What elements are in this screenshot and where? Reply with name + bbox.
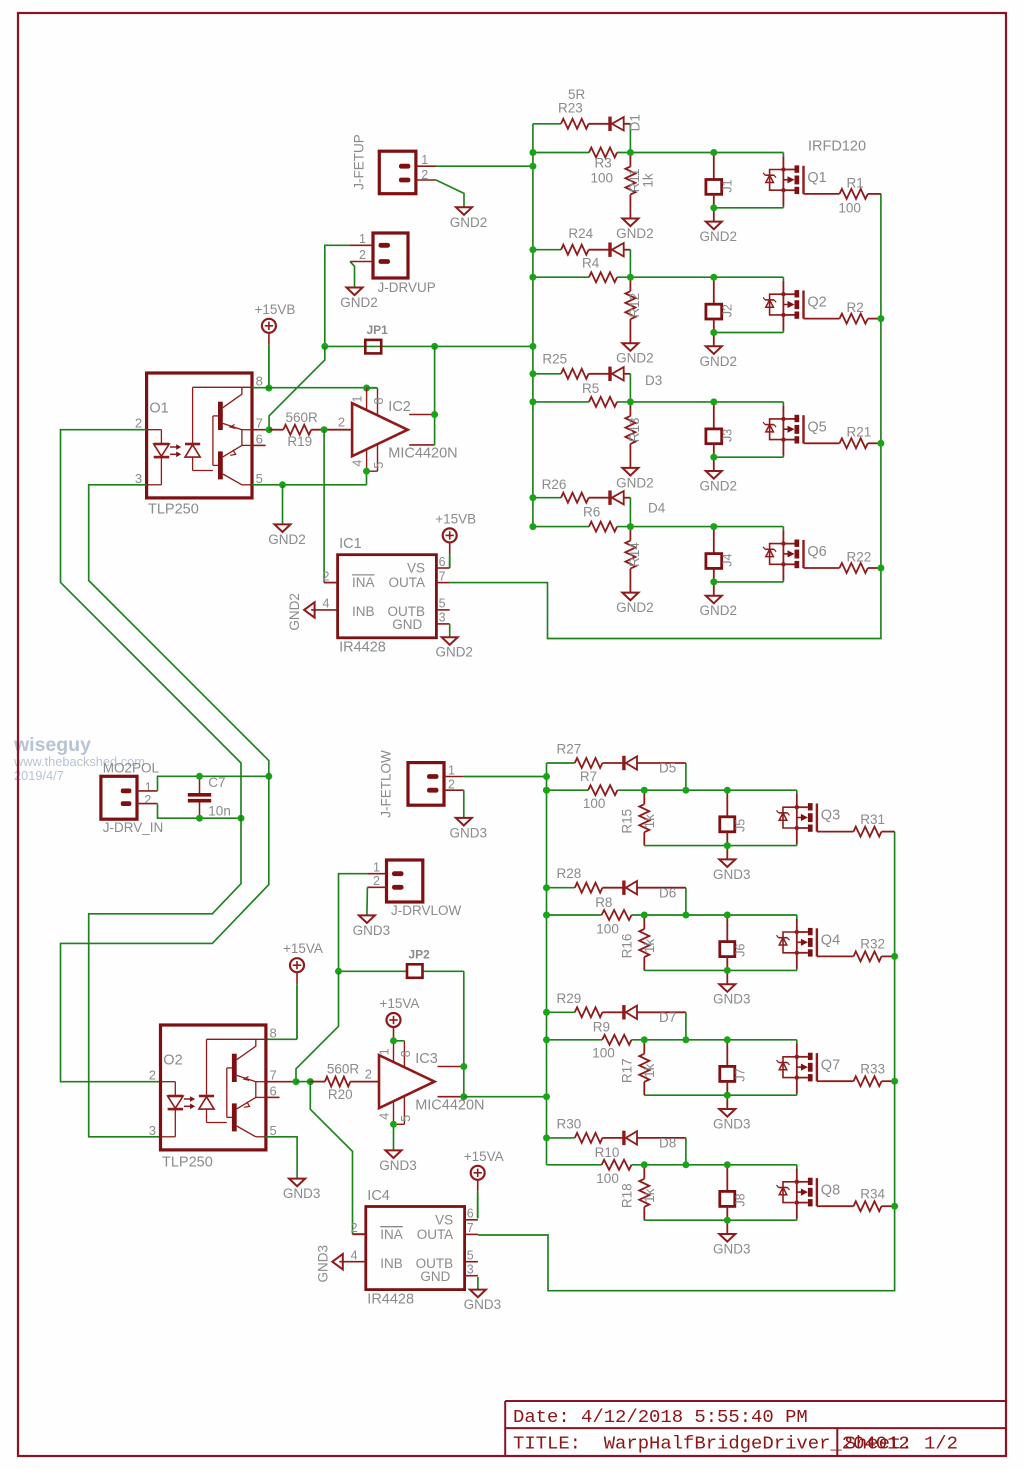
ground GND2 under R12 — [622, 343, 638, 351]
power +15VB (left) — [268, 333, 270, 345]
wire row F diode branch — [547, 887, 575, 889]
wire upper gate bus — [532, 124, 534, 527]
svg-text:JP2: JP2 — [408, 947, 430, 961]
wire IC3 output to lower bus — [464, 1096, 547, 1098]
svg-text:J7: J7 — [734, 1068, 748, 1081]
svg-text:O2: O2 — [163, 1053, 182, 1069]
wire row C source line — [714, 456, 784, 458]
svg-text:D5: D5 — [659, 761, 676, 776]
svg-text:R9: R9 — [593, 1020, 610, 1035]
resistor R4 — [589, 272, 617, 282]
wire lower gate bus — [546, 763, 548, 1165]
ground GND2 under J4 — [713, 582, 715, 596]
ground GND2 under J3 — [713, 457, 715, 471]
junction JP1 right — [431, 343, 438, 350]
svg-text:IR4428: IR4428 — [367, 1291, 414, 1307]
resistor R10 — [602, 1160, 632, 1170]
svg-text:MO2POL: MO2POL — [103, 761, 160, 776]
power +15VA at IC3 — [393, 1027, 395, 1039]
svg-text:R12: R12 — [627, 293, 642, 318]
connector J8 — [726, 1165, 728, 1192]
op-amp IC3 MIC4420N — [379, 1055, 435, 1108]
diode D3 — [608, 367, 611, 381]
ground GND3 under J5 — [726, 846, 728, 860]
svg-text:+15VB: +15VB — [254, 302, 295, 317]
resistor R30 — [575, 1133, 603, 1143]
ic IC1 IR4428 — [338, 555, 437, 638]
svg-text:IC1: IC1 — [339, 536, 362, 552]
wire row D source line — [714, 581, 784, 583]
ground GND2 under R14 — [622, 593, 638, 601]
svg-text:1k: 1k — [642, 1063, 657, 1078]
svg-text:IC3: IC3 — [415, 1051, 438, 1067]
wire R20 node to IC4 INA — [310, 1082, 352, 1234]
wire row C gate line — [533, 401, 589, 403]
wire O2 pin7 stub — [266, 1081, 297, 1083]
resistor R13 — [629, 402, 631, 416]
svg-text:R18: R18 — [620, 1183, 635, 1208]
svg-text:D6: D6 — [659, 885, 676, 900]
svg-text:J8: J8 — [734, 1193, 748, 1206]
svg-text:7: 7 — [270, 1068, 277, 1083]
svg-text:GND2: GND2 — [616, 351, 654, 366]
junction JP1 bus — [529, 343, 536, 350]
svg-text:2: 2 — [338, 415, 345, 430]
svg-text:+15VA: +15VA — [283, 941, 323, 956]
wire row A source line — [714, 207, 784, 209]
wire J-DRV_IN pin2 net — [158, 804, 242, 819]
svg-text:R15: R15 — [620, 809, 635, 834]
svg-text:IRFD120: IRFD120 — [808, 138, 866, 154]
svg-text:2: 2 — [322, 569, 329, 583]
wire row D gate line — [533, 526, 589, 528]
power +15VA at IC4 — [477, 1180, 479, 1192]
svg-text:7: 7 — [467, 1221, 474, 1235]
connector J-DRVLOW — [387, 860, 423, 902]
svg-text:100: 100 — [596, 922, 619, 937]
connector J1 — [713, 153, 715, 180]
svg-text:6: 6 — [270, 1083, 277, 1098]
svg-text:Q7: Q7 — [821, 1057, 840, 1073]
svg-text:D8: D8 — [659, 1136, 676, 1151]
svg-text:Date: 4/12/2018 5:55:40 PM: Date: 4/12/2018 5:55:40 PM — [513, 1406, 808, 1428]
svg-text:R27: R27 — [557, 742, 582, 757]
resistor R32 — [821, 955, 853, 957]
wire row G gate line — [547, 1039, 603, 1041]
wire O1 pin5 line — [252, 484, 367, 486]
transistor Q8 — [796, 1169, 798, 1218]
ground GND3 at IC3 — [386, 1150, 402, 1158]
svg-text:1k: 1k — [640, 173, 655, 188]
svg-text:R4: R4 — [582, 256, 600, 271]
svg-text:1: 1 — [378, 1048, 392, 1055]
junction dots row H — [543, 1134, 550, 1141]
svg-text:GND2: GND2 — [450, 215, 488, 230]
svg-text:2: 2 — [351, 1221, 358, 1235]
wire O1 pin2 to J-DRV_IN pin2 and O2 pin3 — [61, 430, 242, 1137]
resistor R21 — [808, 442, 840, 444]
svg-text:IC4: IC4 — [367, 1188, 390, 1204]
wire row E diode branch — [547, 762, 575, 764]
wire J-FETLOW pin1 to bus — [464, 776, 547, 778]
wire O1 pin8 to IC2 — [252, 387, 378, 389]
svg-text:2: 2 — [365, 1067, 372, 1082]
svg-text:560R: 560R — [327, 1061, 360, 1076]
resistor R34 — [821, 1205, 853, 1207]
ground GND3 at O2 pin5 — [289, 1179, 305, 1187]
svg-text:D3: D3 — [645, 373, 662, 388]
resistor R31 — [821, 831, 853, 833]
wire J-FETLOW pin2 to ground — [463, 790, 465, 818]
svg-text:R33: R33 — [860, 1062, 885, 1077]
resistor R3 — [589, 148, 617, 158]
svg-text:J3: J3 — [720, 429, 734, 442]
junction net to O2 pin2 — [265, 773, 272, 780]
wire J-DRVLOW pin1 to JP2 node — [339, 874, 368, 972]
wire row A diode branch — [533, 123, 561, 125]
junction dots row G — [543, 1009, 550, 1016]
power +15VA (O2 pin8) — [296, 972, 298, 984]
svg-text:560R: 560R — [286, 410, 319, 425]
junction dots row C — [529, 370, 536, 377]
resistor R24 — [561, 245, 589, 255]
svg-text:Sheet: 1/2: Sheet: 1/2 — [845, 1433, 958, 1455]
svg-text:R3: R3 — [595, 155, 612, 170]
svg-text:4: 4 — [322, 597, 329, 611]
svg-text:1: 1 — [421, 153, 428, 167]
svg-text:GND2: GND2 — [700, 479, 738, 494]
resistor R19 560R — [269, 429, 283, 431]
diode D6 — [622, 881, 625, 895]
svg-text:R14: R14 — [627, 542, 642, 567]
svg-text:5R: 5R — [568, 87, 586, 102]
junction row B right bus — [877, 315, 884, 322]
junction J-FETLOW pin1 — [543, 773, 550, 780]
resistor R33 — [821, 1080, 853, 1082]
wire row C diode branch — [533, 373, 561, 375]
junction JP1 left — [321, 343, 328, 350]
svg-text:J2: J2 — [720, 304, 734, 317]
wire IR4428 IC4 OUTA to lower right bus — [478, 832, 895, 1291]
junction C7 top — [196, 773, 203, 780]
svg-text:1: 1 — [359, 232, 366, 246]
svg-text:TLP250: TLP250 — [162, 1155, 213, 1171]
transistor Q1 — [782, 157, 784, 206]
svg-text:2: 2 — [448, 777, 455, 791]
svg-text:1: 1 — [351, 395, 365, 402]
svg-text:GND3: GND3 — [450, 825, 488, 840]
svg-text:R20: R20 — [328, 1087, 353, 1102]
svg-text:R2: R2 — [847, 300, 864, 315]
svg-text:GND3: GND3 — [713, 867, 751, 882]
resistor R5 — [589, 397, 617, 407]
svg-text:2: 2 — [373, 874, 380, 888]
svg-text:J-FETLOW: J-FETLOW — [379, 750, 394, 818]
svg-text:MIC4420N: MIC4420N — [388, 446, 457, 462]
ground GND2 at O1 pin5 — [275, 524, 291, 532]
svg-text:J-DRVLOW: J-DRVLOW — [391, 903, 462, 918]
connector J7 — [726, 1040, 728, 1067]
svg-text:2: 2 — [149, 1068, 156, 1083]
junction IC2 pins45 — [363, 468, 370, 475]
svg-text:GND3: GND3 — [283, 1186, 321, 1201]
svg-text:VS: VS — [407, 561, 425, 576]
svg-text:C7: C7 — [208, 775, 225, 790]
svg-text:GND2: GND2 — [616, 475, 654, 490]
connector J6 — [726, 915, 728, 942]
transistor Q7 — [796, 1044, 798, 1093]
resistor R29 — [575, 1007, 603, 1017]
wire J-DRV_IN pin1 net — [158, 776, 269, 791]
svg-text:6: 6 — [256, 431, 263, 446]
resistor R12 — [629, 277, 631, 291]
resistor R1 — [808, 193, 840, 195]
svg-text:3: 3 — [467, 1263, 474, 1277]
svg-text:R26: R26 — [542, 477, 567, 492]
junction dots row A — [529, 149, 536, 156]
svg-text:Q6: Q6 — [807, 544, 826, 560]
resistor R8 — [602, 910, 632, 920]
junction row F right bus — [891, 953, 898, 960]
resistor R27 — [575, 758, 603, 768]
svg-text:5: 5 — [399, 1115, 413, 1122]
wire J-FETUP pin1 to bus — [436, 165, 533, 167]
ground GND3 under J6 — [726, 970, 728, 984]
ground GND2 under J2 — [713, 333, 715, 347]
svg-text:7: 7 — [256, 416, 263, 431]
svg-text:8: 8 — [256, 373, 263, 388]
capacitor C7 — [199, 776, 201, 793]
svg-text:J5: J5 — [734, 819, 748, 832]
wire row D diode branch — [533, 497, 561, 499]
svg-text:D4: D4 — [648, 501, 666, 516]
svg-text:MIC4420N: MIC4420N — [415, 1098, 484, 1114]
svg-text:R22: R22 — [847, 549, 872, 564]
resistor R15 — [643, 790, 645, 804]
junction lower bus drive — [543, 1093, 550, 1100]
junction row D right bus — [877, 565, 884, 572]
op-amp IC2 MIC4420N — [352, 403, 408, 456]
svg-text:100: 100 — [838, 200, 861, 215]
junction row C right bus — [877, 440, 884, 447]
ground GND2 at J-FETUP — [456, 207, 472, 215]
junction +15VB on pin8 wire — [265, 385, 272, 392]
svg-text:GND3: GND3 — [353, 923, 391, 938]
transistor Q2 — [782, 281, 784, 330]
svg-text:O1: O1 — [149, 401, 168, 417]
junction IC2 output — [431, 411, 438, 418]
wire O1 pin3 to J-DRV_IN pin1 and O2 pin2 — [61, 485, 269, 1082]
svg-text:Q8: Q8 — [821, 1182, 840, 1198]
svg-text:J1: J1 — [720, 179, 734, 192]
junction R20 input — [307, 1078, 314, 1085]
connector J-FETLOW — [408, 763, 444, 806]
svg-text:100: 100 — [583, 796, 606, 811]
svg-text:1: 1 — [373, 861, 380, 875]
wire JP1 to opto output — [269, 346, 325, 429]
resistor R7 — [588, 785, 617, 795]
svg-text:4: 4 — [351, 1249, 358, 1263]
svg-text:J4: J4 — [720, 553, 734, 566]
diode D5 — [622, 756, 625, 770]
junction O1 pin7 — [266, 426, 273, 433]
svg-text:GND: GND — [392, 617, 422, 632]
ground GND3 under J7 — [726, 1095, 728, 1109]
junction O2 pin7 — [293, 1078, 300, 1085]
svg-text:R19: R19 — [287, 434, 312, 449]
svg-text:GND3: GND3 — [713, 992, 751, 1007]
svg-text:GND2: GND2 — [287, 593, 302, 631]
transistor Q5 — [782, 406, 784, 455]
svg-text:GND3: GND3 — [315, 1245, 330, 1283]
jumper JP2 — [407, 964, 423, 978]
svg-text:GND: GND — [420, 1269, 450, 1284]
svg-text:R5: R5 — [582, 381, 599, 396]
svg-text:INB: INB — [352, 604, 375, 619]
ground GND2 under J1 — [713, 208, 715, 222]
svg-text:100: 100 — [596, 1171, 619, 1186]
svg-text:TLP250: TLP250 — [148, 502, 199, 518]
junction row G right bus — [891, 1078, 898, 1085]
diode D4 — [608, 491, 611, 505]
junction dots row B — [529, 246, 536, 253]
svg-text:J-DRV_IN: J-DRV_IN — [103, 820, 164, 835]
svg-text:GND2: GND2 — [268, 532, 306, 547]
svg-text:Q2: Q2 — [807, 295, 826, 311]
svg-text:2: 2 — [359, 248, 366, 262]
transistor Q3 — [796, 794, 798, 843]
wire R19 node to IC1 INA — [323, 430, 325, 583]
svg-text:5: 5 — [439, 597, 446, 611]
svg-text:INA: INA — [352, 575, 375, 590]
resistor R17 — [643, 1040, 645, 1054]
wire J-FETUP pin2 to ground — [436, 180, 464, 207]
diode D7 — [622, 1005, 625, 1019]
svg-text:GND2: GND2 — [340, 295, 378, 310]
svg-text:3: 3 — [149, 1123, 156, 1138]
svg-text:R8: R8 — [595, 895, 612, 910]
svg-text:8: 8 — [372, 397, 386, 404]
connector J2 — [713, 277, 715, 304]
transistor Q4 — [796, 919, 798, 968]
svg-text:R21: R21 — [847, 425, 872, 440]
svg-text:JP1: JP1 — [367, 323, 389, 337]
junction JP2 left — [335, 968, 342, 975]
junction IC3 output lower — [460, 1093, 467, 1100]
svg-text:R28: R28 — [557, 866, 582, 881]
resistor R11 — [629, 153, 631, 167]
resistor R26 — [561, 493, 589, 503]
svg-text:OUTA: OUTA — [389, 575, 426, 590]
svg-text:4: 4 — [378, 1113, 392, 1120]
svg-text:8: 8 — [270, 1025, 277, 1040]
connector J-FETUP — [379, 151, 416, 194]
connector J5 — [726, 790, 728, 817]
svg-text:1k: 1k — [642, 939, 657, 954]
svg-text:100: 100 — [591, 171, 614, 186]
wire pin5 ground drop — [282, 485, 284, 525]
svg-text:+15VA: +15VA — [464, 1149, 504, 1164]
svg-text:IC2: IC2 — [388, 399, 411, 415]
svg-text:R25: R25 — [542, 352, 567, 367]
svg-text:5: 5 — [270, 1123, 277, 1138]
wire IC1 pin3 to ground — [449, 624, 451, 637]
connector J-DRVUP — [373, 233, 408, 278]
ground GND2 under R13 — [622, 468, 638, 476]
svg-text:2: 2 — [144, 793, 151, 807]
ic IC4 IR4428 — [366, 1207, 465, 1290]
wire row F source line — [644, 969, 797, 971]
wire row G diode branch — [547, 1011, 575, 1013]
connector J3 — [713, 402, 715, 429]
connector J-DRV_IN MO2POL — [101, 776, 137, 819]
junction IC3 pin18 — [390, 1037, 397, 1044]
wire row F gate line — [547, 914, 602, 916]
svg-text:100: 100 — [592, 1046, 615, 1061]
wire IC2 pins45 to gnd line — [366, 471, 368, 485]
wire row B gate line — [533, 276, 589, 278]
junction C7 bottom — [196, 815, 203, 822]
junction dots row D — [529, 494, 536, 501]
svg-text:5: 5 — [256, 471, 263, 486]
junction dots row E — [543, 787, 550, 794]
ground GND2 at J-DRVUP — [347, 288, 363, 296]
svg-text:3: 3 — [439, 611, 446, 625]
svg-text:3: 3 — [135, 471, 142, 486]
resistor R28 — [575, 883, 603, 893]
diode D1 — [608, 117, 611, 131]
resistor R16 — [643, 915, 645, 929]
diode D8 — [622, 1131, 625, 1145]
svg-text:J-FETUP: J-FETUP — [352, 134, 367, 190]
junction dots row F — [543, 884, 550, 891]
ground GND2 at IC1 pin3 — [442, 637, 458, 645]
svg-text:+15VA: +15VA — [380, 996, 420, 1011]
wire J-DRVUP pin1 to JP1 node — [325, 245, 350, 346]
svg-text:8: 8 — [399, 1050, 413, 1057]
resistor R6 — [589, 522, 617, 532]
svg-text:Q3: Q3 — [821, 808, 840, 824]
ground GND3 at J-FETLOW — [456, 818, 472, 826]
ground GND3 at J-DRVLOW — [359, 915, 375, 923]
svg-text:J6: J6 — [734, 944, 748, 957]
svg-text:1k: 1k — [642, 1188, 657, 1203]
svg-text:R10: R10 — [595, 1145, 620, 1160]
junction IC3 output upper — [460, 1063, 467, 1070]
svg-text:6: 6 — [467, 1207, 474, 1221]
wire row B source line — [714, 332, 784, 334]
svg-text:Q4: Q4 — [821, 933, 840, 949]
svg-text:GND3: GND3 — [713, 1117, 751, 1132]
resistor R18 — [643, 1165, 645, 1179]
wire IC2 output stubs — [409, 414, 434, 416]
svg-text:5: 5 — [467, 1249, 474, 1263]
svg-text:wiseguy: wiseguy — [13, 734, 91, 756]
svg-text:J-DRVUP: J-DRVUP — [378, 280, 436, 295]
wire O1 pin7 stub — [252, 429, 269, 431]
svg-text:INA: INA — [380, 1227, 403, 1242]
wire JP2 to opto output — [296, 971, 339, 1081]
svg-text:R1: R1 — [847, 175, 864, 190]
resistor R14 — [629, 527, 631, 541]
svg-text:5: 5 — [372, 462, 386, 469]
svg-text:IR4428: IR4428 — [339, 640, 386, 656]
svg-text:R29: R29 — [557, 991, 582, 1006]
svg-text:GND2: GND2 — [616, 226, 654, 241]
svg-text:+15VB: +15VB — [435, 511, 476, 526]
wire IC3 output stubs — [438, 1066, 464, 1068]
svg-text:1k: 1k — [642, 814, 657, 829]
